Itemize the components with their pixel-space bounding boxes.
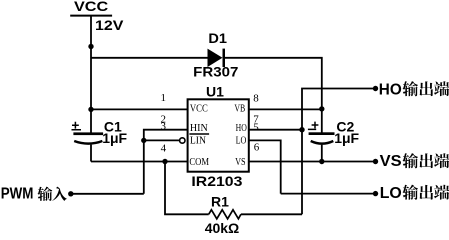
capacitor C1 plates <box>73 132 103 135</box>
svg-text:LO: LO <box>236 134 247 146</box>
wire diode row <box>91 57 208 59</box>
svg-text:U1: U1 <box>206 84 224 100</box>
svg-text:1μF: 1μF <box>334 130 359 146</box>
svg-text:4: 4 <box>161 143 167 155</box>
wire COM row left <box>91 161 188 163</box>
junction VCC rail / pin 1 <box>88 107 93 112</box>
wire R1 left leg <box>165 162 209 215</box>
junction HIN-LIN tie <box>141 138 146 143</box>
capacitor C1 plus <box>72 122 82 130</box>
junction on VCC rail <box>88 44 93 49</box>
wire PWM input <box>71 193 144 195</box>
svg-text:12V: 12V <box>95 17 124 33</box>
svg-text:COM: COM <box>189 156 209 168</box>
wire HO terminal row <box>302 89 373 215</box>
svg-text:D1: D1 <box>208 30 227 46</box>
svg-text:VCC: VCC <box>74 0 108 14</box>
wire VCC vertical <box>90 16 92 133</box>
svg-text:1μF: 1μF <box>102 130 127 146</box>
svg-text:3: 3 <box>161 121 167 133</box>
wire pin3 LIN <box>144 139 180 141</box>
svg-text:40kΩ: 40kΩ <box>205 220 240 236</box>
svg-text:1: 1 <box>161 92 167 104</box>
svg-text:8: 8 <box>253 93 259 105</box>
resistor R1 zigzag <box>209 210 241 219</box>
wire diode cathode to right <box>225 58 322 133</box>
terminal dot LO output <box>373 191 378 196</box>
wire R1 right leg <box>241 213 302 215</box>
junction HO node <box>299 127 304 132</box>
wire pin6 VS row to terminal <box>249 161 373 163</box>
svg-text:VB: VB <box>234 103 245 115</box>
terminal dot VS output <box>373 159 378 164</box>
svg-text:R1: R1 <box>211 194 229 210</box>
svg-text:VS: VS <box>380 153 402 170</box>
junction COM / R1 <box>162 159 167 164</box>
svg-text:LIN: LIN <box>190 134 206 146</box>
wire pin8 VB <box>249 108 322 110</box>
svg-text:5: 5 <box>253 121 259 133</box>
svg-text:VS: VS <box>235 156 246 168</box>
terminal dot PWM input <box>68 191 73 196</box>
wire C1 bottom vertical <box>90 145 92 162</box>
svg-text:IR2103: IR2103 <box>191 173 242 189</box>
junction VS / C2 bottom <box>319 159 324 164</box>
svg-text:6: 6 <box>254 142 260 154</box>
diode D1 <box>208 49 223 67</box>
svg-text:LO: LO <box>380 185 402 202</box>
wire C2 bottom vertical <box>321 145 323 162</box>
wire pin7 HO <box>249 129 302 131</box>
VCC power rail bar <box>70 15 112 17</box>
terminal dot HO output <box>373 86 378 91</box>
IC U1 box <box>188 99 249 171</box>
svg-text:VCC: VCC <box>190 103 208 115</box>
junction VB / D1 cathode / C2 top <box>319 106 324 111</box>
wire pin2 HIN <box>144 130 188 194</box>
wire pin5 LO <box>249 140 281 193</box>
svg-text:HIN: HIN <box>190 122 208 134</box>
svg-text:HO: HO <box>379 81 402 98</box>
capacitor C2 plates <box>309 132 335 135</box>
LIN overbar <box>189 133 209 135</box>
LIN inverter bubble <box>180 138 185 143</box>
svg-text:PWM: PWM <box>1 186 34 203</box>
wire pin1 VCC <box>91 108 188 110</box>
wire LO terminal row <box>281 193 374 195</box>
svg-text:FR307: FR307 <box>193 64 238 80</box>
svg-text:HO: HO <box>236 122 247 134</box>
capacitor C2 plus <box>308 122 319 130</box>
